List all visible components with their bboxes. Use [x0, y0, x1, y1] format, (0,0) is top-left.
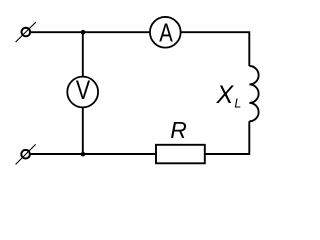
inductor XL (three arcs) — [249, 66, 258, 121]
svg-text:R: R — [170, 117, 187, 143]
wire (ammeter to top-right corner and down to inductor) — [180, 32, 249, 66]
svg-text:V: V — [76, 76, 90, 106]
wire (top, terminal to ammeter) — [31, 31, 150, 33]
terminal J2 (bottom-left input) — [16, 144, 36, 164]
voltmeter V — [67, 76, 98, 107]
resistor R — [156, 145, 205, 164]
node (top junction dot) — [81, 30, 86, 35]
terminal J1 (top-left input) — [16, 22, 36, 42]
label XL — [216, 81, 242, 110]
wire (inductor down to bottom-right corner, left to resistor) — [205, 121, 250, 154]
node (bottom junction dot) — [81, 152, 86, 157]
svg-text:A: A — [159, 18, 173, 47]
svg-text:X: X — [216, 81, 235, 109]
wire (bottom, terminal to resistor) — [31, 153, 156, 155]
wire (top junction down to voltmeter) — [82, 32, 84, 77]
wire (voltmeter down to bottom junction) — [82, 107, 84, 155]
svg-text:L: L — [234, 97, 241, 111]
ammeter A — [150, 17, 181, 48]
